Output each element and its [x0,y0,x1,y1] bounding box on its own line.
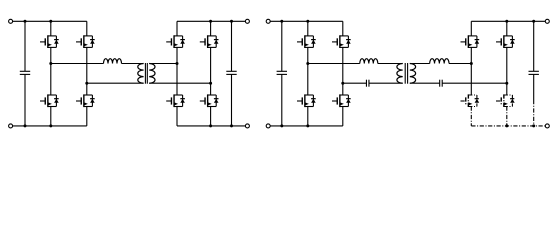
transistor: C2 left-bridge leg1 upper MOSFET [297,35,316,48]
node: C2 left-bridge leg1 midpoint tap [306,62,309,65]
node: C2 left-bridge leg2 midpoint tap [341,82,344,85]
circuit 1 output terminal bottom [245,124,249,128]
wire: C2 secondary cap to bridge [442,82,507,84]
schematic: two isolated bidirectional DC-DC converters (DAB and CLLC) [0,0,554,142]
wire: C1 left-bridge leg1 source to bottom rail [50,107,52,126]
circuit 2 output terminal top [545,19,549,23]
wire: C1 secondary top lead [149,63,177,65]
wire: C2 right top rail [471,20,545,22]
wire: C2 right-bridge leg1 drain from top rail [470,21,472,36]
transformer: C1 isolation transformer T1 [138,63,155,84]
wire: C2 resonant cap to transformer primary bottom [369,82,403,84]
wire: C1 bottom rail [13,125,87,127]
circuit 2 input terminal bottom [266,124,270,128]
transistor: C2 left-bridge leg2 upper MOSFET [332,35,351,48]
node: C1 left-bridge leg2 midpoint tap [85,82,88,85]
wire: C1 right top rail [177,20,246,22]
wire: C1 right-bridge leg1 source to bottom rail [176,107,178,126]
wire: C1 left-bridge leg1 drain from top rail [50,21,52,36]
capacitor: C2 secondary resonant cap [440,80,443,87]
wire: C2 secondary top lead [410,63,430,65]
node: C1 input cap bottom junction [24,124,27,127]
node: C1 right-bridge leg1 midpoint tap [176,62,179,65]
wire: C2 left-bridge leg2 source to bottom rail [342,107,344,126]
node: C1 right-bridge leg2 top-rail junction [209,20,212,23]
node: C1 input cap top junction [24,20,27,23]
transistor: C1 left-bridge leg2 lower MOSFET [76,94,95,107]
transistor: C1 left-bridge leg2 upper MOSFET [76,35,95,48]
wire: C1 left-bridge leg2 drain from top rail [86,21,88,36]
node: C2 output cap bottom junction [532,124,535,127]
capacitor: C2 primary resonant cap [366,80,369,87]
circuit 2 output terminal bottom [545,124,549,128]
transistor: C2 right-bridge leg2 lower MOSFET (phantom) [496,94,515,107]
wire: C2 secondary bottom lead [410,82,440,84]
node: C2 right-bridge leg2 top-rail junction [505,20,508,23]
wire: C2 right bottom rail (phantom) [471,125,545,127]
node: C2 right leg2 bottom-rail junction [505,124,508,127]
wire: C1 right-bridge leg1 midpoint vertical [176,47,178,95]
wire: C1 right bottom rail [177,125,246,127]
capacitor: C2 output filter cap [529,21,539,126]
transistor: C1 right-bridge leg2 lower MOSFET [200,94,219,107]
wire: C2 right-bridge leg2 source to bottom rail [506,107,508,126]
node: C1 left-bridge leg1 midpoint tap [49,62,52,65]
circuit 1 input terminal top [9,19,13,23]
wire: C2 left-bridge leg1 midpoint vertical [307,47,309,95]
transistor: C2 left-bridge leg1 lower MOSFET [297,94,316,107]
wire: C1 phase B to transformer primary bottom [87,82,144,84]
transistor: C1 right-bridge leg1 upper MOSFET [166,35,185,48]
wire: C2 right-bridge leg2 midpoint vertical [506,47,508,95]
transistor: C1 right-bridge leg1 lower MOSFET [166,94,185,107]
wire: C2 phase B to resonant cap [343,82,367,84]
node: C2 right-bridge leg1 midpoint tap [470,62,473,65]
inductor: C1 series inductor L [104,59,122,64]
inductor: C2 secondary resonant inductor [430,59,449,64]
wire: C1 secondary bottom lead [149,82,210,84]
node: C1 right-bridge leg2 bottom-rail junction [209,124,212,127]
wire: C2 right-bridge leg1 source to bottom rail [470,107,472,126]
node: C2 left-bridge leg1 bottom-rail junction [306,124,309,127]
wire: C1 right-bridge leg2 drain from top rail [210,21,212,36]
transformer: C2 isolation transformer T2 [397,63,416,84]
wire: C2 right-bridge leg1 midpoint vertical [470,47,472,95]
wire: C1 top rail [13,20,87,22]
node: C1 output cap bottom junction [230,124,233,127]
wire: C1 left-bridge leg2 midpoint vertical [86,47,88,95]
transistor: C2 right-bridge leg1 upper MOSFET [461,35,480,48]
wire: C1 right-bridge leg1 drain from top rail [176,21,178,36]
node: C2 right-bridge leg2 midpoint tap [505,82,508,85]
node: C1 left-bridge leg1 bottom-rail junction [49,124,52,127]
wire: C2 left-bridge leg2 drain from top rail [342,21,344,36]
node: C1 output cap top junction [230,20,233,23]
transistor: C1 left-bridge leg1 upper MOSFET [40,35,59,48]
wire: C2 secondary inductor to bridge [449,63,471,65]
wire: C1 inductor to transformer primary [122,63,144,65]
wire: C2 left-bridge leg1 drain from top rail [307,21,309,36]
wire: C1 left-bridge leg2 source to bottom rail [86,107,88,126]
wire: C2 right-bridge leg2 drain from top rail [506,21,508,36]
node: C1 left-bridge leg1 top-rail junction [49,20,52,23]
wire: C2 left-bridge leg1 source to bottom rail [307,107,309,126]
transistor: C2 left-bridge leg2 lower MOSFET [332,94,351,107]
transistor: C2 right-bridge leg2 upper MOSFET [496,35,515,48]
wire: C1 right-bridge leg2 midpoint vertical [210,47,212,95]
node: C2 input cap bottom junction [280,124,283,127]
transistor: C2 right-bridge leg1 lower MOSFET (phantom) [461,94,480,107]
circuit 2 input terminal top [266,19,270,23]
transistor: C1 left-bridge leg1 lower MOSFET [40,94,59,107]
node: C2 output cap top junction [532,20,535,23]
node: C1 right-bridge leg2 midpoint tap [209,82,212,85]
capacitor: C1 output filter cap [226,21,236,126]
wire: C2 bottom rail [270,125,343,127]
wire: C1 left-bridge leg1 midpoint vertical [50,47,52,95]
node: C2 left-bridge leg1 top-rail junction [306,20,309,23]
wire: C2 inductor to transformer primary [378,63,403,65]
wire: C1 right-bridge leg2 source to bottom rail [210,107,212,126]
transistor: C1 right-bridge leg2 upper MOSFET [200,35,219,48]
wire: C1 phase A to inductor [51,63,104,65]
capacitor: C1 input filter cap [20,21,30,126]
wire: C2 left-bridge leg2 midpoint vertical [342,47,344,95]
capacitor: C2 input filter cap [277,21,287,126]
circuit 1 input terminal bottom [9,124,13,128]
wire: C2 top rail [270,20,343,22]
wire: C2 phase A to resonant inductor [308,63,360,65]
circuit 1 output terminal top [245,19,249,23]
node: C2 input cap top junction [280,20,283,23]
inductor: C2 primary resonant inductor [360,59,378,64]
